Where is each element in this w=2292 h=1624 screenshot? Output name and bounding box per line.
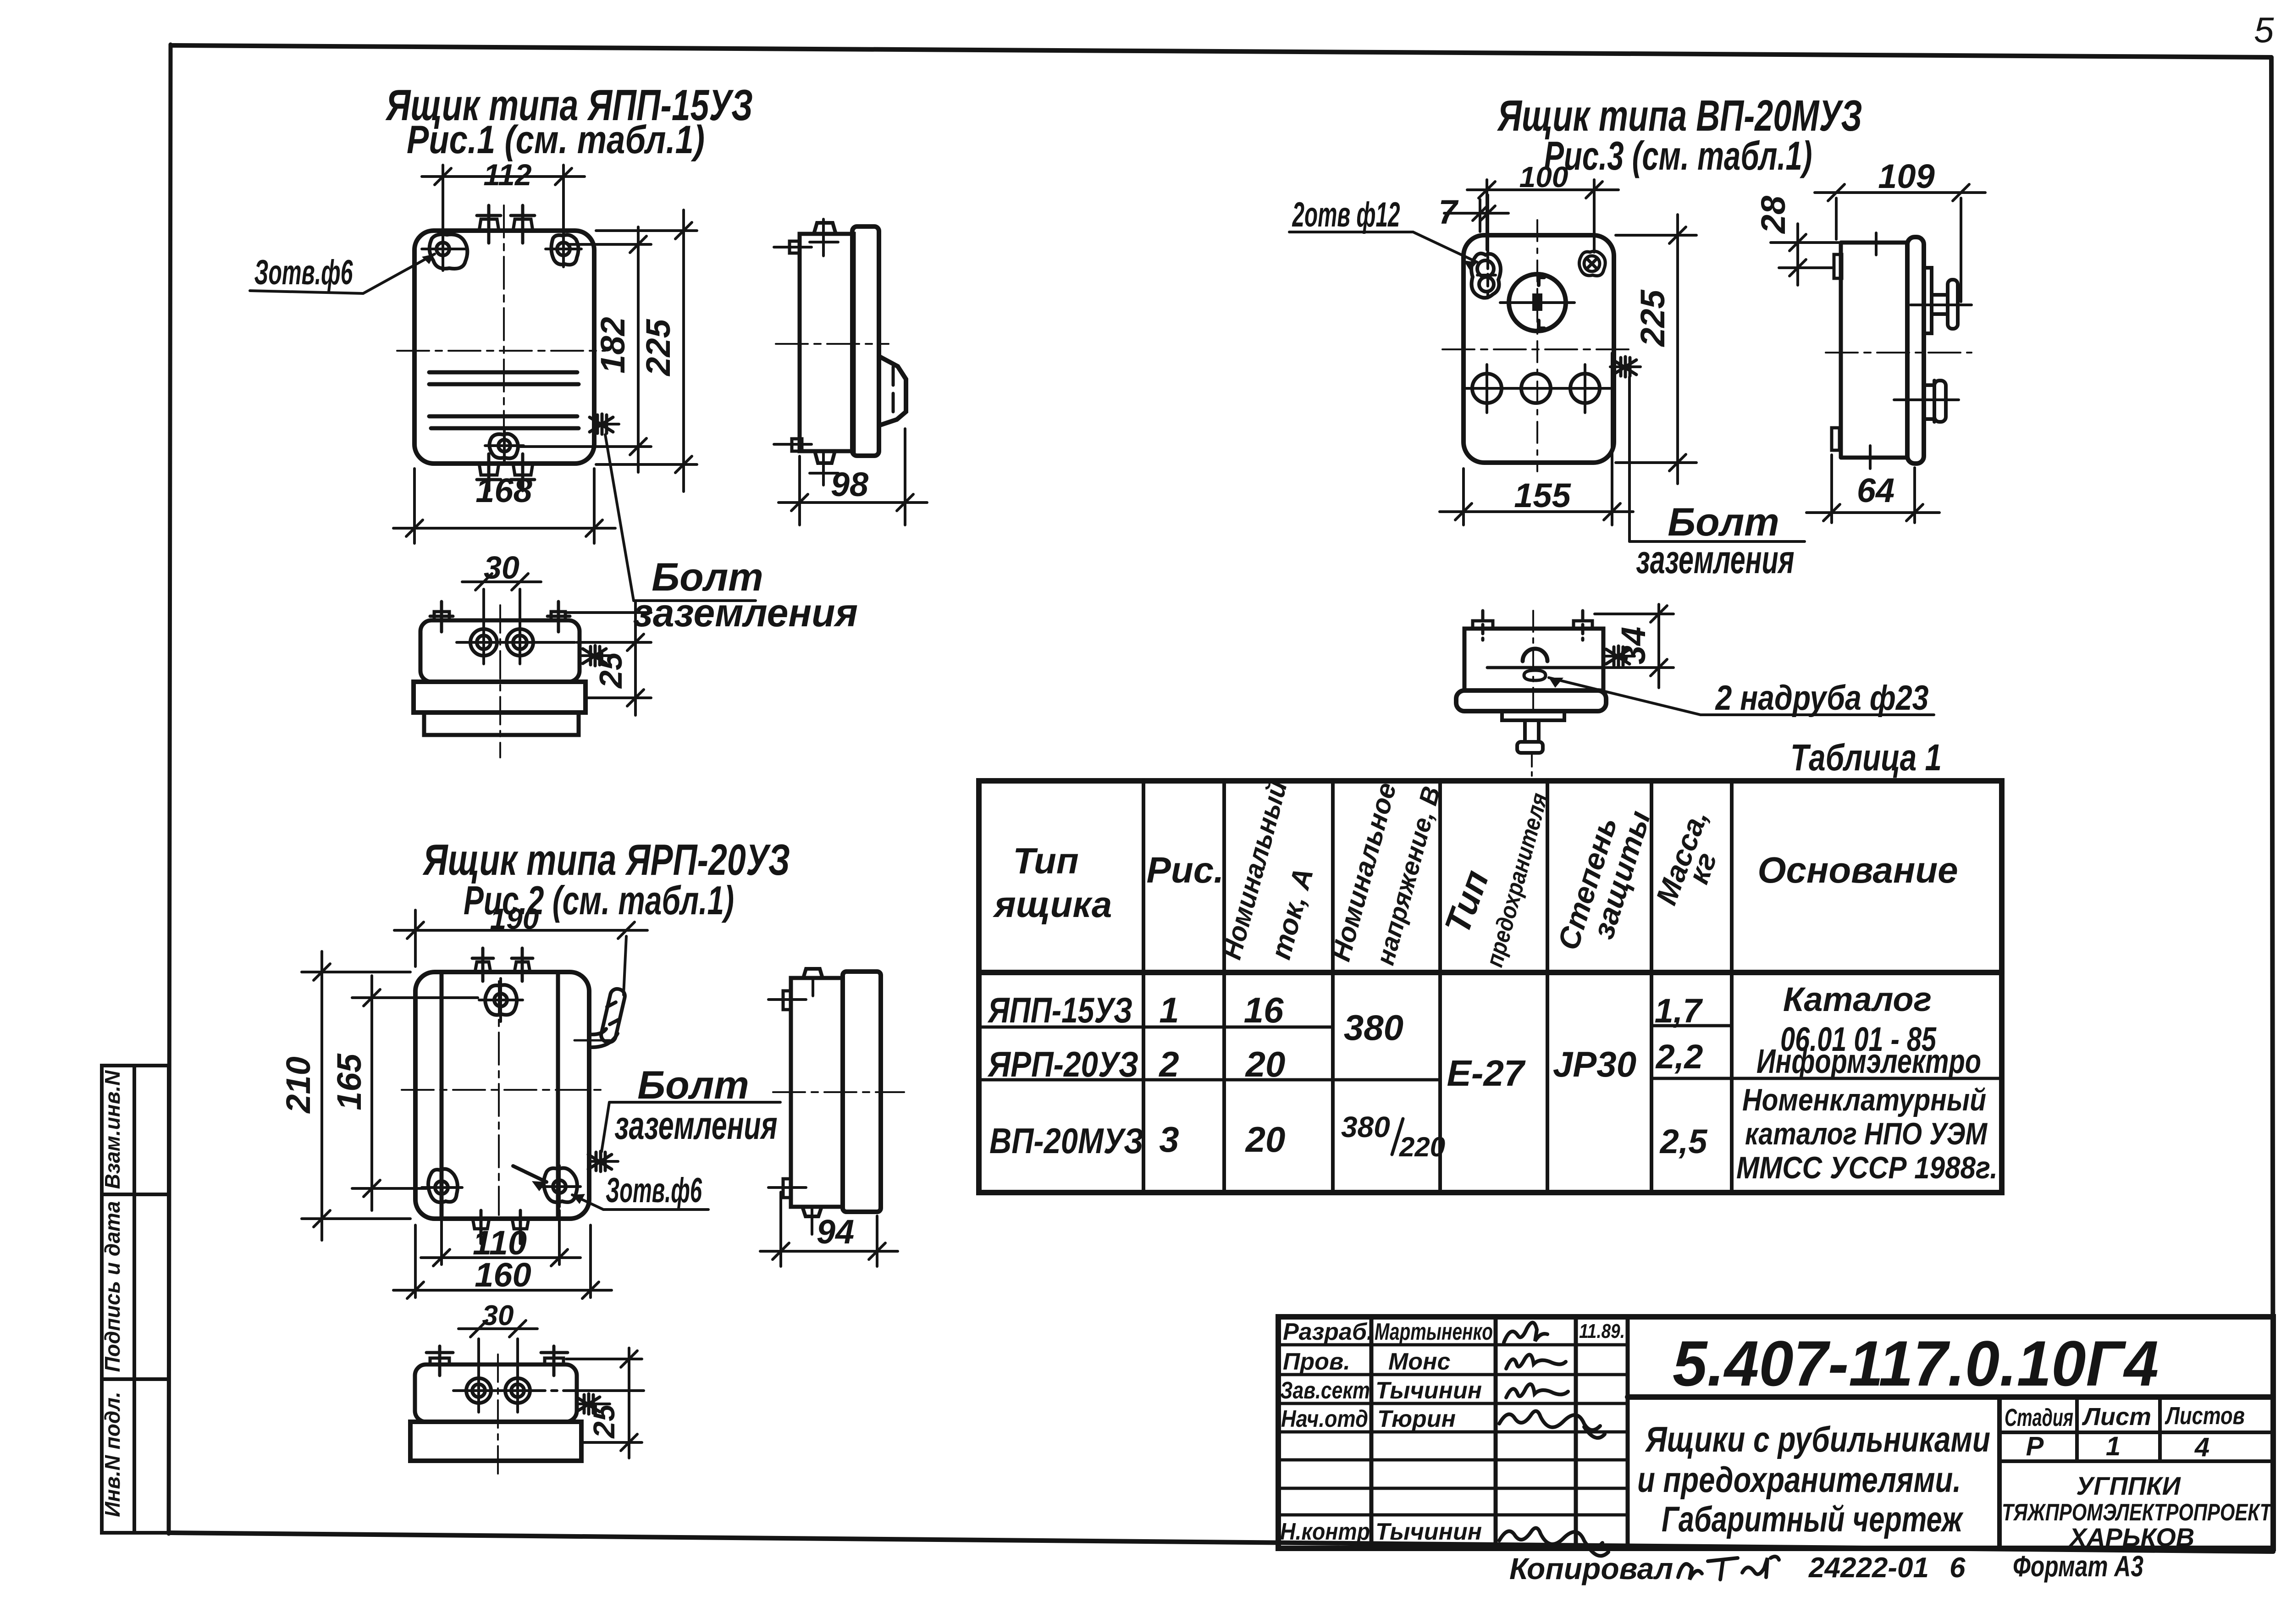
fig1 ground bolt leader (605, 435, 634, 601)
fig3 side body (1841, 243, 1907, 458)
svg-text:ЯРП-20УЗ: ЯРП-20УЗ (987, 1044, 1138, 1084)
dimension 30 fig1 bottom (462, 574, 541, 590)
fig1 bottom view ears (430, 602, 570, 632)
fig3 bottom knockout oval (1524, 670, 1546, 680)
svg-text:Е-27: Е-27 (1447, 1053, 1526, 1094)
fig1 bottom view glands (470, 629, 533, 656)
fig3 bottom band (1456, 690, 1606, 711)
svg-text:Зотв.ф6: Зотв.ф6 (254, 253, 353, 292)
svg-text:и предохранителями.: и предохранителями. (1637, 1459, 1961, 1500)
signature scribbles (1499, 1322, 1608, 1556)
svg-text:Лист: Лист (2082, 1403, 2151, 1431)
dimension 25 fig1 bottom (565, 601, 651, 715)
svg-text:20: 20 (1245, 1119, 1286, 1160)
title block left table columns (1371, 1317, 1628, 1548)
svg-text:11.89.: 11.89. (1579, 1320, 1625, 1342)
fig3 top-right screw (1579, 251, 1605, 276)
fig3 bottom knockout semicircle (1523, 649, 1547, 661)
fig3 side cover (1907, 237, 1924, 464)
fig3 side top lug (1834, 254, 1842, 278)
svg-text:2,2: 2,2 (1655, 1038, 1703, 1076)
svg-text:380: 380 (1341, 1110, 1390, 1143)
fig3 bottom ears (1473, 611, 1592, 640)
frame left (169, 44, 171, 1534)
fig1 side centerline (776, 343, 889, 345)
fig3 side centerline (1826, 352, 1972, 354)
svg-text:Тычинин: Тычинин (1375, 1519, 1482, 1545)
fig2 front inner seams (440, 973, 444, 1218)
svg-text:182: 182 (594, 317, 632, 373)
drawing name cell (1997, 1397, 2002, 1548)
svg-text:Пров.: Пров. (1283, 1348, 1350, 1375)
svg-text:ВП-20МУЗ: ВП-20МУЗ (989, 1121, 1143, 1161)
svg-text:2отв ф12: 2отв ф12 (1292, 195, 1400, 234)
fig2 ground marker (588, 1151, 612, 1171)
svg-text:Рис.1 (см. табл.1): Рис.1 (см. табл.1) (407, 118, 705, 162)
svg-text:Н.контр: Н.контр (1280, 1519, 1370, 1545)
fig2 bottom-left hole (422, 1166, 462, 1208)
dimension 109 fig3 side (1815, 184, 1985, 302)
fig3 keyhole centerline (1486, 195, 1489, 254)
svg-text:100: 100 (1519, 160, 1569, 193)
svg-text:168: 168 (475, 471, 532, 509)
fig3 switch circle (1509, 274, 1566, 331)
fig2 bottom ears (473, 1210, 529, 1243)
svg-text:Формат А3: Формат А3 (2013, 1550, 2143, 1583)
frame top (172, 45, 2271, 57)
svg-text:ЯПП-15УЗ: ЯПП-15УЗ (987, 990, 1132, 1030)
fig3 bottom body (1464, 629, 1603, 690)
fig2 side centerline (773, 1091, 904, 1093)
fig2 top ears (472, 948, 533, 981)
dimension 98 fig1 side (779, 429, 927, 525)
dimension 182 fig1 (520, 227, 651, 472)
svg-text:ХАРЬКОВ: ХАРЬКОВ (2068, 1523, 2194, 1552)
fig2 bottom view centerline (497, 1354, 499, 1477)
svg-text:20: 20 (1245, 1044, 1286, 1084)
svg-text:155: 155 (1514, 476, 1571, 514)
fig2 bottom view glands (466, 1378, 530, 1403)
svg-text:24222-01: 24222-01 (1808, 1552, 1929, 1584)
fig1 side body (800, 234, 854, 451)
svg-text:109: 109 (1878, 157, 1934, 195)
fig1 side cover (852, 226, 879, 456)
svg-text:Нач.отд: Нач.отд (1281, 1406, 1368, 1432)
svg-text:Мартыненко: Мартыненко (1375, 1319, 1493, 1345)
fig3 side lower knob (1924, 381, 1946, 422)
fig2 side cover (843, 972, 881, 1212)
fig1 bottom mounting tabs (477, 454, 535, 491)
svg-text:Взам.инв.N: Взам.инв.N (100, 1070, 124, 1189)
svg-text:16: 16 (1244, 990, 1284, 1030)
svg-text:Таблица 1: Таблица 1 (1790, 737, 1942, 779)
svg-text:Номенклатурный: Номенклатурный (1742, 1083, 1986, 1117)
fig1 side left lugs (790, 241, 800, 253)
svg-text:3: 3 (1159, 1119, 1179, 1160)
svg-text:Тип: Тип (1013, 840, 1079, 881)
svg-text:Основание: Основание (1757, 850, 1958, 890)
table row line 1 (979, 1026, 1333, 1029)
fig2 bottom ground marker (576, 1394, 600, 1414)
svg-text:28: 28 (1754, 195, 1792, 234)
fig2 side left lugs (783, 991, 791, 1010)
dimension 168 fig1 (393, 469, 615, 543)
fig3 bottom stem (1525, 720, 1539, 742)
fig3 keyhole holes (1471, 254, 1501, 298)
fig3 bottom circles (1472, 374, 1600, 403)
svg-text:2,5: 2,5 (1659, 1122, 1708, 1160)
fig1 bottom view gland centerlines (457, 641, 575, 644)
svg-text:5: 5 (2254, 10, 2274, 50)
svg-text:Рис.3 (см. табл.1): Рис.3 (см. табл.1) (1544, 133, 1812, 178)
svg-text:1,7: 1,7 (1655, 992, 1704, 1030)
fig3 bottom flange (1517, 742, 1543, 753)
fig3 side bottom lug (1832, 428, 1839, 450)
fig1 vertical centerline (503, 205, 505, 426)
fig3 vertical centerline (1536, 220, 1538, 471)
table row line 2 (979, 1078, 1440, 1082)
svg-text:190: 190 (490, 902, 539, 935)
svg-text:Тычинин: Тычинин (1375, 1377, 1482, 1404)
fig1 side top bolt tab (814, 223, 836, 234)
dimension 28 fig3 side (1771, 224, 1839, 285)
fig3 front view outline (1464, 235, 1614, 463)
svg-text:6: 6 (1950, 1552, 1966, 1584)
svg-text:225: 225 (639, 318, 677, 376)
fig2 side body (791, 978, 843, 1207)
dimension 64 fig3 side (1806, 455, 1939, 523)
svg-text:Тип: Тип (1436, 865, 1497, 939)
fig2 bottom view body (415, 1364, 577, 1422)
dimension 94 fig2 side (760, 1192, 898, 1266)
fig2 side bottom tab (802, 1207, 822, 1216)
svg-text:4: 4 (2194, 1432, 2209, 1462)
svg-text:Стадия: Стадия (2005, 1404, 2073, 1431)
svg-text:Болт: Болт (637, 1063, 749, 1107)
svg-text:160: 160 (475, 1256, 531, 1294)
fig1 side bump dashes (892, 367, 895, 415)
fig3 side upper knob (1924, 268, 1958, 333)
fig3 bottom centerline (1532, 611, 1534, 715)
fig3 bottom neck (1502, 711, 1564, 720)
fig2 bottom view band (410, 1422, 581, 1461)
fig1 bottom view centerline (499, 605, 501, 757)
fig1 side bottom bolt tab (815, 451, 835, 463)
svg-text:УГППКИ: УГППКИ (2076, 1471, 2181, 1500)
svg-text:Копировал: Копировал (1509, 1552, 1673, 1585)
svg-text:1: 1 (1159, 990, 1179, 1030)
svg-text:Р: Р (2026, 1431, 2044, 1461)
fig1 horizontal centerline (397, 350, 605, 352)
dimension 165 fig2 (352, 976, 478, 1210)
svg-text:98: 98 (831, 465, 869, 503)
label 2 надруба ф23 (1549, 678, 1701, 715)
fig1 bottom view body (420, 620, 580, 682)
fig2 top hole (479, 978, 523, 1022)
fig2 bottom view gland centerlines (453, 1389, 644, 1392)
dimension 30 fig2 bottom (458, 1320, 537, 1337)
fig1 top mounting tabs (477, 205, 535, 243)
svg-text:ТЯЖПРОМЭЛЕКТРОПРОЕКТ: ТЯЖПРОМЭЛЕКТРОПРОЕКТ (2002, 1499, 2273, 1526)
dimension 110 fig2 (421, 1210, 580, 1266)
dimension 7 fig3 (1444, 199, 1508, 232)
dimension 190 fig2 (394, 910, 647, 995)
fig3 bottom ground marker (1606, 646, 1629, 666)
svg-text:Каталог: Каталог (1783, 980, 1932, 1018)
svg-text:64: 64 (1857, 471, 1894, 509)
table header separator (979, 970, 2002, 975)
dimension 100 fig3 (1467, 180, 1618, 252)
svg-text:заземления: заземления (633, 591, 858, 635)
svg-text:Зав.сект: Зав.сект (1280, 1377, 1370, 1404)
table column lines (1143, 781, 1732, 1193)
fig1 bottom view base (424, 713, 579, 735)
svg-text:210: 210 (279, 1056, 317, 1114)
fig1 bottom view step (414, 682, 585, 713)
svg-text:7: 7 (1438, 193, 1459, 231)
dimension 25 fig2 bottom (566, 1348, 642, 1458)
svg-text:ящика: ящика (993, 884, 1112, 925)
fig1 bottom hole (485, 428, 524, 463)
svg-text:30: 30 (484, 550, 519, 586)
svg-text:94: 94 (817, 1213, 854, 1251)
dimension 155 fig3 (1440, 353, 1633, 525)
svg-text:заземления: заземления (615, 1104, 778, 1148)
svg-text:165: 165 (330, 1053, 368, 1110)
svg-text:ток, А: ток, А (1265, 865, 1320, 963)
dimension 160 fig2 (393, 1225, 612, 1298)
svg-text:220: 220 (1399, 1132, 1445, 1162)
fig2 earth wire hook (589, 988, 626, 1047)
svg-text:Рис.: Рис. (1147, 850, 1224, 890)
svg-text:2 надруба ф23: 2 надруба ф23 (1715, 679, 1929, 718)
svg-text:Тюрин: Тюрин (1377, 1406, 1456, 1432)
fig3 ground marker (1613, 357, 1636, 377)
frame bottom (169, 1533, 2273, 1552)
left margin stamp strip (102, 1066, 169, 1533)
svg-text:Разраб.: Разраб. (1283, 1319, 1373, 1345)
fig1 side handle bump (879, 356, 906, 425)
svg-text:30: 30 (482, 1300, 514, 1331)
dimension 210 fig2 (302, 951, 410, 1240)
title block outline (1278, 1317, 2273, 1548)
svg-text:2: 2 (1158, 1044, 1179, 1084)
svg-text:Листов: Листов (2165, 1402, 2245, 1430)
svg-text:380: 380 (1344, 1007, 1403, 1048)
fig1 ground bolt marker (590, 414, 613, 434)
code cell separator (1628, 1394, 2273, 1400)
dimension 34 fig3 bottom (1595, 604, 1673, 688)
fig2 bottom-right hole (540, 1166, 580, 1207)
svg-text:заземления: заземления (1636, 538, 1795, 582)
fig1 front view outline (414, 231, 594, 464)
fig2 front view outline (415, 972, 589, 1219)
dimension 225 fig3 (1616, 215, 1696, 484)
svg-text:112: 112 (483, 158, 532, 192)
стадия cells (1999, 1397, 2273, 1461)
dimension 225 fig1 (596, 210, 697, 492)
fig1 top-left mounting hole (422, 228, 467, 271)
svg-text:каталог НПО УЭМ: каталог НПО УЭМ (1745, 1116, 1988, 1151)
fig2 arrow to hole (513, 1166, 547, 1182)
fig3 ground leader (1628, 377, 1631, 541)
svg-text:Монс: Монс (1388, 1348, 1450, 1375)
fig1 bottom ground marker (583, 646, 606, 666)
fig2 horizontal centerline (402, 1089, 602, 1091)
fig2 side top tab (803, 969, 823, 978)
fig1 louvre lines (429, 372, 579, 428)
svg-text:225: 225 (1634, 289, 1672, 347)
svg-text:1: 1 (2106, 1431, 2121, 1461)
fig3 horizontal centerline (1442, 348, 1630, 350)
frame right (2271, 57, 2273, 1552)
svg-text:Ящики с рубильниками: Ящики с рубильниками (1645, 1419, 1990, 1459)
svg-text:Информэлектро: Информэлектро (1756, 1042, 1981, 1080)
dimension 112 fig1 (422, 165, 585, 232)
svg-text:5.407-117.0.10Г4: 5.407-117.0.10Г4 (1673, 1327, 2159, 1399)
svg-text:ММСС УССР 1988г.: ММСС УССР 1988г. (1736, 1150, 1998, 1185)
svg-text:ЈР30: ЈР30 (1553, 1044, 1636, 1084)
svg-text:Габаритный чертеж: Габаритный чертеж (1662, 1499, 1964, 1539)
fig2 vertical centerline (498, 981, 500, 1215)
table outer border (979, 781, 2002, 1193)
svg-text:Подпись и дата: Подпись и дата (100, 1201, 124, 1372)
title block left table rows (1278, 1345, 1628, 1515)
footer copier signature (1678, 1557, 1779, 1580)
fig1 top-right mounting hole (546, 232, 581, 267)
svg-text:Зотв.ф6: Зотв.ф6 (606, 1171, 702, 1210)
fig2 bottom view ears (426, 1346, 568, 1375)
svg-text:Инв.N подл.: Инв.N подл. (100, 1392, 124, 1517)
fig2 Болт заземления label (609, 1101, 780, 1104)
svg-text:Ящик типа ЯРП-20УЗ: Ящик типа ЯРП-20УЗ (422, 835, 790, 884)
